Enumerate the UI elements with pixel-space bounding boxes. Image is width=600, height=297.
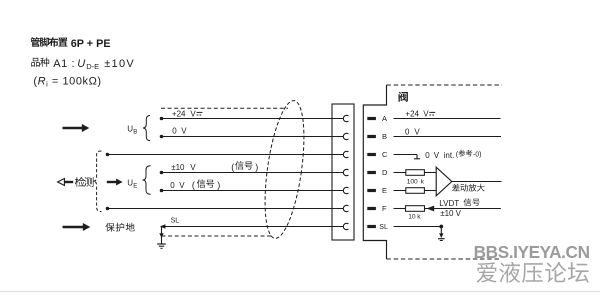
pin F [367, 204, 387, 213]
svg-text:E: E [133, 183, 137, 189]
svg-text:0: 0 [172, 127, 177, 136]
svg-text:-0): -0) [473, 152, 482, 159]
svg-text:V: V [179, 181, 185, 190]
svg-text:±10: ±10 [440, 209, 454, 218]
wire resistor to op-amp (E) [424, 190, 436, 192]
svg-text:V: V [190, 109, 196, 118]
svg-text:C: C [382, 150, 388, 159]
svg-text:+24: +24 [172, 109, 186, 118]
wire monitoring lower to pin F [106, 207, 344, 211]
wire pin C internal reference [394, 155, 421, 159]
wire 0V signal to pin E [160, 189, 344, 193]
svg-text:int.: int. [444, 151, 455, 160]
svg-text:+24: +24 [405, 109, 419, 118]
svg-text:V: V [423, 109, 429, 118]
title line 2: variant A1 U D-E ±10V [31, 58, 135, 71]
pin B [367, 132, 387, 141]
shield dashed line bottom [162, 235, 273, 237]
label UE [127, 178, 137, 189]
svg-text:V: V [190, 163, 196, 172]
wire ±10V signal to pin D [160, 171, 344, 175]
socket contact row 7 [343, 223, 348, 229]
resistor 100k [406, 170, 425, 176]
arrow: protective earth [63, 226, 84, 228]
label: differential amplifier (chadong fangda) [452, 184, 485, 192]
svg-text:10: 10 [408, 214, 416, 221]
wire pin F signal line [425, 208, 501, 210]
wire +24V to pin A [160, 117, 344, 121]
svg-text:): ) [255, 162, 258, 172]
valve outline bottom dashed [387, 258, 502, 260]
label: monitoring (jiance) [75, 177, 94, 187]
valve outline top dashed [387, 84, 503, 86]
faint page bottom edge [0, 290, 600, 292]
resistor 10k [406, 206, 425, 212]
wire pin F to resistor [394, 208, 406, 210]
arrow: monitoring (outline, pointing left) [58, 179, 74, 186]
arrowhead LVDT signal (pointing left) [426, 206, 434, 212]
wire SL to pin SL [160, 224, 344, 228]
label 100 k [407, 178, 425, 185]
label 10 k [408, 214, 421, 221]
socket contact row 2 [343, 133, 348, 139]
cable shield ellipse [258, 98, 311, 240]
svg-text:D: D [382, 168, 388, 177]
svg-text:6P + PE: 6P + PE [71, 38, 111, 50]
svg-text:0: 0 [425, 151, 430, 160]
op-amp differential amplifier [436, 167, 452, 196]
wire monitoring upper to pin C [106, 153, 344, 157]
label +24 V dc (left) [172, 109, 203, 118]
socket contact row 1 [343, 115, 348, 121]
valve outline (solid part) [363, 85, 386, 259]
svg-text:100: 100 [407, 178, 418, 185]
label ±10 V (signal) [171, 161, 258, 172]
label 0 V int. (reference-0) [425, 150, 481, 160]
svg-text:(Ri = 100kΩ): (Ri = 100kΩ) [33, 75, 101, 88]
label: valve (fa) [399, 92, 408, 102]
wire pin D to resistor [394, 172, 406, 174]
svg-text:V: V [414, 128, 420, 137]
title line 1: pin assignment 6P + PE [31, 37, 111, 50]
svg-text:A: A [382, 114, 387, 123]
svg-text:LVDT: LVDT [439, 199, 459, 208]
svg-text:SL: SL [379, 224, 388, 231]
svg-text:BBS.IYEYA.CN: BBS.IYEYA.CN [474, 241, 590, 261]
internal ground symbol (SL) [438, 233, 445, 240]
svg-text:F: F [382, 204, 387, 213]
label LVDT signal [439, 198, 479, 208]
svg-text:(: ( [192, 180, 195, 190]
svg-text:0: 0 [170, 181, 175, 190]
label +24 V dc (valve) [405, 109, 435, 118]
wire op-amp output [452, 181, 502, 183]
socket contact row 6 [343, 205, 348, 211]
svg-text:E: E [382, 186, 387, 195]
pin SL [367, 224, 388, 231]
svg-text:0: 0 [405, 128, 410, 137]
wire: SL drop to earth [161, 227, 163, 244]
brace UB [143, 116, 150, 141]
pin E [367, 186, 387, 195]
earth ground symbol (PE) [157, 244, 166, 248]
title line 3: (Ri = 100k ohm) [33, 75, 101, 88]
svg-text:B: B [133, 130, 137, 136]
wire resistor to op-amp (D) [424, 172, 436, 174]
arrow: UE input [107, 181, 117, 183]
socket contact row 4 [343, 169, 348, 175]
wire pin E to resistor [394, 190, 406, 192]
svg-text:V: V [434, 151, 440, 160]
arrow: supply input UB [63, 127, 83, 129]
arrowhead onto shield line [159, 233, 163, 238]
label 0 V (left) [172, 127, 187, 136]
pin D [367, 168, 388, 177]
pin C [367, 150, 388, 159]
svg-text:): ) [217, 180, 220, 190]
wire pin SL to internal ground [394, 225, 444, 234]
socket contact row 3 [343, 151, 348, 157]
label 0 V (signal) [170, 179, 220, 190]
dashed brace: monitoring pair [93, 151, 101, 212]
svg-text:(: ( [231, 162, 234, 172]
svg-text:V: V [456, 209, 462, 218]
resistor (E row) [406, 188, 425, 194]
label 0 V (valve) [405, 128, 420, 137]
svg-text:SL: SL [171, 218, 180, 225]
label UB [127, 125, 137, 136]
connector housing [332, 104, 354, 240]
wire 0V to pin B [160, 135, 344, 139]
svg-text:A1 :: A1 : [53, 58, 75, 70]
svg-text:B: B [382, 132, 387, 141]
label ±10 V (valve) [440, 209, 461, 218]
svg-text:±10: ±10 [171, 163, 185, 172]
svg-text:U: U [77, 58, 85, 70]
svg-text:±10V: ±10V [104, 58, 135, 70]
svg-text:V: V [181, 127, 187, 136]
brace UE [143, 166, 151, 194]
wire pin B supply [394, 136, 502, 138]
wire pin A supply [394, 118, 501, 120]
svg-text:D-E: D-E [86, 62, 99, 71]
shield dashed line top [161, 107, 288, 109]
watermark aiyeya forum (CJK) [476, 262, 588, 283]
label: protective earth (baohudi) [105, 223, 134, 232]
socket contact row 5 [343, 187, 348, 193]
pin A [367, 114, 387, 123]
